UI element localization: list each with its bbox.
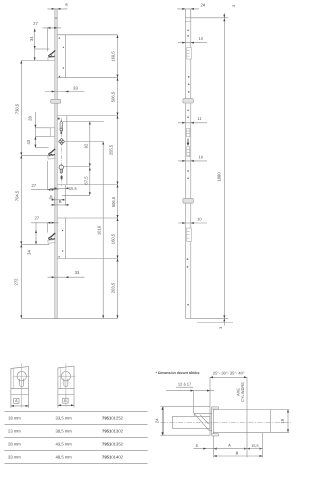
square follower — [59, 138, 65, 144]
svg-text:1880: 1880 — [217, 172, 222, 182]
svg-text:* Dimension devant têtière: * Dimension devant têtière — [156, 371, 200, 375]
lock case outline — [57, 116, 117, 185]
cylinder profile — [59, 165, 63, 179]
dim 10 upper — [178, 36, 207, 43]
svg-text:A: A — [228, 443, 231, 448]
follower slot — [60, 120, 63, 134]
dim 15,5 — [50, 186, 77, 191]
svg-text:12 à 17: 12 à 17 — [178, 381, 192, 386]
faceplate channel (plan) — [212, 407, 219, 436]
svg-text:23 mm: 23 mm — [8, 429, 21, 434]
dim 33 upper — [45, 86, 85, 93]
svg-text:3: 3 — [219, 327, 223, 329]
dim 33 lower — [48, 270, 85, 278]
vertical centerline — [60, 118, 62, 186]
dim 43 — [26, 137, 50, 148]
hook bolt 2 — [48, 149, 56, 159]
svg-text:24: 24 — [155, 418, 160, 423]
svg-text:B: B — [64, 399, 67, 403]
center marker arrow — [187, 139, 190, 146]
svg-text:506,5: 506,5 — [111, 91, 116, 102]
svg-text:10: 10 — [197, 217, 202, 222]
case screw — [58, 118, 60, 120]
svg-text:795101252: 795101252 — [102, 416, 124, 421]
dim 19 (body width) — [271, 410, 290, 433]
svg-text:10: 10 — [199, 155, 204, 160]
label A with dim — [49, 194, 65, 206]
dim angles 25-40 — [210, 370, 247, 406]
svg-text:160,5: 160,5 — [111, 51, 116, 62]
size table — [5, 412, 148, 464]
svg-text:48,5 mm: 48,5 mm — [56, 455, 73, 460]
cylinder cover figure A — [11, 364, 30, 409]
bottom extension lines — [191, 318, 233, 322]
axis centerline — [161, 421, 293, 423]
svg-text:27: 27 — [31, 183, 36, 188]
keep strip (front view) — [185, 18, 191, 319]
rail screws — [59, 37, 64, 77]
svg-text:15,5: 15,5 — [69, 186, 78, 191]
top extension to 1880 — [191, 17, 229, 19]
bottom extension line — [21, 317, 117, 319]
bottom dim A — [214, 436, 247, 458]
svg-text:730,5: 730,5 — [14, 103, 19, 114]
strip end cap top — [185, 20, 191, 22]
svg-text:27: 27 — [34, 216, 39, 221]
svg-text:CYLINDRE: CYLINDRE — [240, 382, 245, 402]
lock case (plan view) — [164, 407, 211, 436]
dim 92 — [84, 122, 91, 167]
rod coupling sleeve — [51, 99, 61, 103]
svg-text:27: 27 — [33, 21, 38, 26]
hook bolt 1 — [48, 50, 56, 60]
axe cylindre label — [235, 377, 247, 457]
hook2 axis extension — [21, 154, 48, 156]
svg-text:18 mm: 18 mm — [8, 416, 21, 421]
svg-text:24: 24 — [200, 2, 205, 7]
svg-text:67,5: 67,5 — [84, 176, 89, 185]
svg-text:34: 34 — [29, 36, 34, 41]
dim 27 top — [33, 21, 61, 51]
cylinder axis extension — [64, 166, 91, 168]
dim 1880 — [217, 13, 226, 326]
faceplate strip (side view) — [55, 9, 58, 318]
left dim chain 730,5 / 704,5 / 272 — [14, 61, 49, 319]
latch bolt (plan) — [173, 413, 212, 430]
svg-text:10: 10 — [199, 36, 204, 41]
strip holes — [187, 29, 190, 305]
strike opening 2 — [187, 128, 190, 136]
label B with dim — [52, 185, 69, 206]
svg-text:25°- 30°- 35°- 40°: 25°- 30°- 35°- 40° — [213, 370, 245, 375]
hook bolt 3 — [48, 233, 56, 243]
svg-text:B: B — [59, 199, 62, 204]
upper rail section — [57, 35, 117, 78]
svg-text:1010: 1010 — [97, 225, 102, 235]
dim 24 — [177, 2, 206, 9]
svg-text:B: B — [236, 451, 239, 456]
dim 34 lower — [27, 223, 37, 255]
svg-text:28 mm: 28 mm — [8, 442, 21, 447]
svg-text:704,5: 704,5 — [14, 190, 19, 201]
dim 12 à 17 — [166, 381, 214, 413]
svg-text:33 mm: 33 mm — [8, 455, 21, 460]
dim 24 extension lines — [185, 9, 191, 18]
dim 24 (case depth) — [155, 407, 164, 436]
follower tab on strip — [50, 128, 55, 137]
svg-text:15,5: 15,5 — [251, 444, 258, 448]
cylinder cover figure B — [58, 364, 76, 408]
right dim chain 160,5 / 506,5 / 255,5 / 506,5 / 160,5 / 203,5 — [108, 35, 118, 318]
dim 28 — [27, 112, 50, 148]
svg-text:43: 43 — [26, 139, 31, 144]
lock body (plan) — [213, 410, 270, 433]
dim 1010 — [97, 142, 105, 319]
coupling plate lower — [183, 198, 193, 203]
bottom dim 15,5 — [247, 433, 263, 458]
svg-text:33: 33 — [75, 270, 80, 275]
dim 27 middle — [31, 161, 59, 191]
dim 11 — [178, 116, 207, 124]
lower rail section — [57, 218, 117, 259]
svg-text:A: A — [50, 194, 53, 199]
strike opening 1 — [187, 48, 192, 60]
svg-text:795101402: 795101402 — [102, 455, 124, 460]
svg-text:795101352: 795101352 — [102, 442, 124, 447]
svg-text:33,5 mm: 33,5 mm — [56, 416, 73, 421]
strike opening 3 — [187, 228, 192, 241]
svg-text:506,5: 506,5 — [111, 196, 116, 207]
svg-text:203,5: 203,5 — [111, 282, 116, 293]
follower axis extension — [65, 141, 103, 143]
dim 27 lower — [31, 216, 59, 233]
small latch box — [187, 147, 190, 157]
svg-text:38,5 mm: 38,5 mm — [56, 429, 73, 434]
dim 34 top — [29, 29, 50, 61]
dim 10 lower — [178, 217, 207, 224]
dim 6 (strip thickness) — [48, 2, 69, 10]
bottom dim B — [214, 451, 263, 458]
svg-text:255,5: 255,5 — [108, 144, 113, 155]
slot top extension — [63, 121, 104, 123]
svg-text:43,5 mm: 43,5 mm — [56, 442, 73, 447]
svg-text:34: 34 — [27, 250, 32, 255]
svg-text:28: 28 — [27, 116, 32, 121]
svg-text:3: 3 — [232, 5, 236, 7]
coupling plate upper — [183, 99, 193, 103]
lower rail screws — [58, 230, 63, 258]
svg-text:33: 33 — [73, 86, 78, 91]
svg-text:160,5: 160,5 — [111, 233, 116, 244]
svg-text:19: 19 — [280, 418, 285, 423]
dim 10 middle — [178, 155, 207, 162]
bottom dim 6 — [193, 443, 216, 450]
svg-text:795101302: 795101302 — [102, 429, 124, 434]
svg-text:92: 92 — [84, 143, 89, 148]
hook3 extension — [21, 243, 49, 245]
svg-text:A: A — [15, 399, 18, 403]
dim 67,5 — [62, 167, 91, 196]
hole in top rod — [55, 17, 57, 19]
svg-text:272: 272 — [14, 278, 19, 286]
